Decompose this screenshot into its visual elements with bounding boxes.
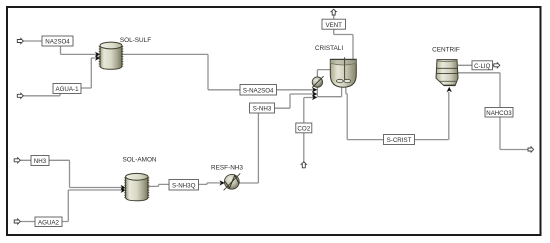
wire AGUA-1 feed: [23, 58, 99, 96]
svg-text:CO2: CO2: [297, 126, 310, 133]
wire S-NA2SO4 (SOL-SULF outlet to mixer): [122, 54, 315, 89]
svg-text:NAHCO3: NAHCO3: [486, 110, 512, 117]
arrowhead into mixer (CO2): [312, 95, 317, 100]
wire NH3 feed: [20, 160, 124, 187]
heat exchanger RESF-NH3: [224, 173, 241, 190]
stream label NAHCO3: [485, 108, 513, 118]
wire mixer sphere outlet to CRISTALI top: [317, 70, 330, 77]
wire NA2SO4 feed: [23, 41, 99, 54]
svg-text:RESF-NH3: RESF-NH3: [211, 165, 243, 172]
arrowhead into CENTRIF bottom: [447, 87, 452, 92]
arrowhead into SOL-AMON (AGUA2): [121, 188, 126, 193]
svg-text:S-CRIST: S-CRIST: [387, 137, 412, 144]
stream label S-NH3: [250, 103, 275, 113]
stream label CO2: [296, 123, 312, 133]
centrifuge CENTRIF: [436, 60, 458, 86]
wire NAHCO3 (CENTRIF outlet): [458, 73, 528, 150]
wire AGUA2 feed: [20, 190, 124, 222]
svg-text:S-NH3Q: S-NH3Q: [172, 182, 196, 189]
arrowhead into SOL-AMON (NH3): [121, 185, 126, 190]
svg-text:SOL-SULF: SOL-SULF: [120, 37, 151, 44]
vessel CRISTALI: [330, 57, 356, 87]
svg-text:AGUA-1: AGUA-1: [55, 86, 79, 93]
svg-text:VENT: VENT: [325, 22, 342, 29]
svg-text:AGUA2: AGUA2: [38, 219, 60, 226]
stream label C-LIQ: [472, 61, 493, 70]
arrowhead into RESF-NH3: [220, 180, 225, 185]
tank SOL-SULF: [100, 42, 122, 69]
wire S-NH3 (RESF-NH3 outlet up to mixer): [239, 94, 315, 183]
wire CO2 feed: [304, 98, 315, 163]
wire circulation (CRISTALI bottom to mixer sphere): [317, 87, 341, 97]
svg-text:CRISTALI: CRISTALI: [315, 45, 344, 52]
svg-text:S-NA2SO4: S-NA2SO4: [243, 87, 274, 94]
mixer sphere: [312, 76, 323, 87]
stream label S-NH3Q: [169, 180, 199, 191]
svg-text:CENTRIF: CENTRIF: [432, 47, 460, 54]
stream label NA2SO4: [42, 36, 73, 46]
stream label AGUA-1: [53, 84, 81, 94]
wire VENT: [334, 15, 353, 60]
svg-text:SOL-AMON: SOL-AMON: [122, 157, 156, 164]
feed arrow NA2SO4 (open): [17, 38, 23, 43]
wire C-LIQ (CENTRIF outlet): [458, 64, 494, 66]
arrowhead into SOL-SULF (NA2SO4): [95, 52, 100, 57]
feed arrow AGUA-1 (open): [17, 93, 23, 98]
tank SOL-AMON: [125, 173, 148, 200]
arrowhead into mixer (S-NH3): [312, 91, 317, 96]
stream label AGUA2: [35, 217, 62, 227]
product arrow C-LIQ (open): [494, 63, 500, 68]
svg-text:NH3: NH3: [34, 158, 47, 165]
svg-text:S-NH3: S-NH3: [253, 106, 272, 113]
product arrow VENT (open, up): [331, 9, 336, 15]
stream label VENT: [322, 19, 346, 29]
product arrow NAHCO3 (open): [528, 147, 534, 152]
svg-text:NA2SO4: NA2SO4: [45, 39, 70, 46]
feed arrow AGUA2 (open): [14, 219, 20, 224]
stream label NH3: [31, 156, 49, 166]
stream label S-CRIST: [384, 135, 415, 145]
stream label S-NA2SO4: [240, 85, 277, 96]
svg-text:C-LIQ: C-LIQ: [474, 63, 491, 70]
feed arrow NH3 (open): [14, 158, 20, 163]
arrowhead into mixer (S-NA2SO4): [312, 87, 317, 92]
arrowhead into SOL-SULF (AGUA-1): [95, 55, 100, 60]
feed arrow CO2 (open, up): [301, 162, 306, 168]
wire S-CRIST (CRISTALI bottom to CENTRIF): [346, 88, 449, 140]
wire S-NH3Q (SOL-AMON outlet to RESF-NH3): [148, 183, 223, 187]
